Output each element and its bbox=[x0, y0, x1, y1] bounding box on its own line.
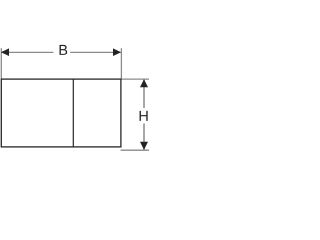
label B (Liberation Sans outline, 14.5px) bbox=[59, 45, 67, 55]
arrowhead H top bbox=[140, 79, 148, 87]
button divider bbox=[72, 79, 74, 147]
plate outline bbox=[1, 79, 121, 147]
dimension line B left segment bbox=[2, 51, 54, 53]
arrowhead H bottom bbox=[140, 142, 148, 150]
arrowhead B left bbox=[1, 48, 9, 56]
extension line right (B) bbox=[120, 48, 122, 78]
extension line bottom (H) bbox=[121, 149, 149, 151]
dimension line H upper segment bbox=[143, 80, 145, 108]
extension line left (B) bbox=[0, 48, 2, 78]
dimension line B right segment bbox=[70, 51, 120, 53]
extension line top (H) bbox=[122, 78, 150, 80]
label H (Liberation Sans outline, 14.5px) bbox=[140, 111, 148, 121]
arrowhead B right bbox=[113, 48, 121, 56]
dimension line H lower segment bbox=[143, 124, 145, 150]
